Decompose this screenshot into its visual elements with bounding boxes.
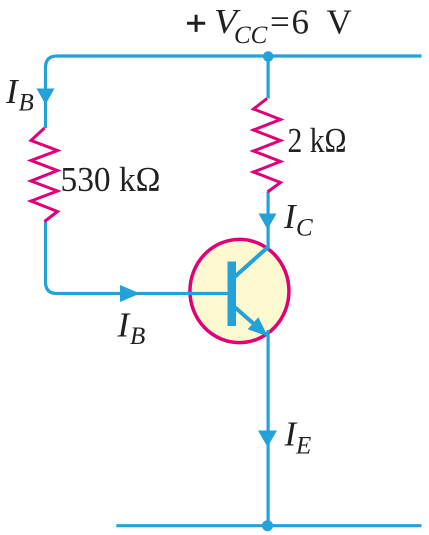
svg-text:C: C: [296, 215, 313, 242]
svg-text:B: B: [19, 90, 34, 117]
svg-text:CC: CC: [234, 22, 268, 49]
svg-text:530 kΩ: 530 kΩ: [61, 160, 161, 199]
svg-text:E: E: [295, 432, 311, 459]
svg-text:2 kΩ: 2 kΩ: [288, 121, 347, 160]
svg-text:=: =: [270, 3, 290, 42]
svg-text:V: V: [327, 3, 352, 42]
svg-text:B: B: [130, 323, 145, 350]
svg-text:6: 6: [292, 3, 310, 42]
